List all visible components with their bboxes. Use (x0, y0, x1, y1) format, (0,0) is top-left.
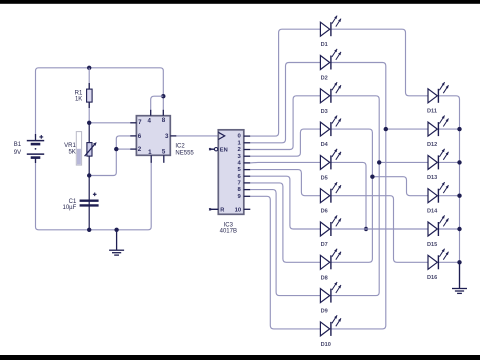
wire C1 vertical (88, 176, 90, 230)
svg-text:R: R (220, 208, 224, 214)
wire 555 pin6 to pin2 tie (89, 136, 130, 176)
IC3 output pin stubs and numbers (244, 136, 251, 209)
node rail junction row 5 (457, 160, 461, 164)
node D12 branch junction (384, 127, 388, 131)
IC2 pin stubs (130, 110, 176, 163)
svg-text:IC2: IC2 (175, 144, 185, 150)
node rail junction row 7 (457, 227, 461, 231)
wire D14 anode branch (372, 177, 428, 196)
ground symbol left (109, 230, 124, 255)
svg-text:2: 2 (138, 146, 142, 153)
svg-text:3: 3 (165, 133, 169, 140)
svg-text:D11: D11 (427, 109, 437, 115)
svg-text:1: 1 (148, 149, 152, 156)
node R1/VR1/pin7 junction (87, 121, 91, 125)
svg-text:6: 6 (138, 133, 142, 140)
svg-text:D2: D2 (321, 76, 328, 82)
wire D4/D8/D14 rail (331, 129, 373, 262)
svg-text:D1: D1 (321, 42, 328, 48)
svg-text:10: 10 (235, 207, 242, 213)
wire R1 bottom to 555 pin 7 (89, 122, 130, 124)
node rail junction row 8 (457, 260, 461, 264)
wire V+ top rail from battery to 555 pin8 (36, 68, 164, 137)
LED D8 (320, 249, 341, 282)
svg-text:D8: D8 (321, 275, 328, 281)
LED D3 (320, 82, 341, 115)
wire D11 cathode to right rail (438, 96, 459, 289)
IC3 R pin (209, 208, 218, 210)
svg-text:D10: D10 (321, 342, 331, 348)
LED D12 (427, 116, 449, 148)
LED D5 (320, 149, 341, 182)
wire D3/D9/D13 rail (331, 96, 379, 296)
LED D7 (320, 215, 341, 248)
wire 4017 output 4 to D5 (250, 161, 320, 164)
node rail junction row 6 (457, 194, 461, 198)
svg-text:1K: 1K (75, 97, 82, 103)
wire 4017 output 7 to D8 (250, 183, 320, 262)
svg-text:D12: D12 (427, 142, 437, 148)
wire D12 cathode to rail (438, 128, 459, 130)
LED D4 (320, 116, 341, 149)
IC3 clock chevron (218, 132, 224, 139)
wire D6 cathode to D16 anode (331, 196, 428, 263)
svg-text:D7: D7 (321, 242, 328, 248)
LED D6 (320, 182, 341, 215)
node ground tap (114, 228, 118, 232)
LED D11 (427, 82, 449, 114)
wire branch to 555 pin 4 (151, 96, 164, 110)
counter U IC3 4017B body (218, 130, 244, 215)
wire D16 cathode to rail (438, 261, 459, 263)
wire 555 pin3 to 4017 clock (176, 135, 218, 137)
LED D16 (427, 249, 449, 281)
wire 4017 output 9 to D10 (250, 196, 320, 329)
wire D7 cathode to D15 anode (331, 228, 428, 230)
wire D14 cathode to rail (438, 195, 459, 197)
wire D5 cathode to D7-D15 net (331, 162, 366, 229)
wire R1 top branch (88, 68, 90, 123)
node VR1 bottom / C1 top junction (87, 173, 91, 177)
LED D10 (320, 315, 341, 348)
battery B1 9V (27, 134, 44, 163)
svg-text:5: 5 (162, 149, 166, 156)
svg-text:D15: D15 (427, 242, 437, 248)
LED D14 (427, 182, 449, 214)
wire 4017 output 3 to D4 (250, 129, 320, 156)
svg-text:D14: D14 (427, 209, 438, 215)
svg-text:9V: 9V (14, 150, 21, 156)
wire D12 anode branch (386, 128, 428, 130)
wire ground bottom rail (36, 159, 152, 230)
svg-text:D13: D13 (427, 175, 437, 181)
resistor R1 1K (87, 83, 93, 108)
ground symbol right (452, 262, 467, 293)
wire D2/D10/D12 rail (331, 63, 386, 329)
node D5/D7/D15 junction (364, 227, 368, 231)
LED D15 (427, 215, 449, 247)
wire D15 cathode to rail (438, 228, 459, 230)
svg-text:D9: D9 (321, 309, 328, 315)
wire D13 anode branch (379, 161, 428, 163)
svg-text:C1: C1 (69, 199, 77, 205)
node D13 branch junction (377, 160, 381, 164)
svg-text:EN: EN (220, 148, 228, 154)
wire 4017 output 1 to D2 (250, 63, 320, 143)
wire 4017 output 5 to D6 (250, 170, 320, 196)
svg-text:4: 4 (147, 118, 151, 125)
IC3 EN pin with bubble (209, 148, 218, 151)
svg-text:B1: B1 (14, 142, 22, 148)
svg-text:D5: D5 (321, 175, 328, 181)
node C1 bottom on ground rail (87, 228, 91, 232)
wire 4017 output 2 to D3 (250, 96, 320, 150)
svg-text:10µF: 10µF (63, 205, 77, 211)
wire D13 cathode to rail (438, 161, 459, 163)
LED D2 (320, 49, 341, 82)
wire 4017 output 6 to D7 (250, 176, 320, 229)
svg-text:4017B: 4017B (220, 229, 237, 235)
node D14 branch junction (370, 175, 374, 179)
wire 4017 output 0 to D1 (250, 29, 320, 136)
svg-text:7: 7 (138, 119, 142, 126)
svg-text:8: 8 (162, 117, 166, 124)
wire 555 pin2 stub link (116, 148, 130, 150)
svg-text:D6: D6 (321, 209, 328, 215)
svg-text:D3: D3 (321, 109, 328, 115)
node V+ junction to R1 (87, 66, 91, 70)
svg-text:5K: 5K (68, 149, 75, 155)
node 555 pins 4-8 tie (161, 94, 165, 98)
node pins 2-6 junction (114, 147, 118, 151)
LED D1 (320, 16, 341, 49)
wire VR1 vertical (88, 123, 90, 176)
LED D13 (427, 149, 449, 181)
svg-text:NE555: NE555 (175, 151, 194, 157)
node rail junction row 4 (457, 127, 461, 131)
svg-text:VR1: VR1 (64, 143, 76, 149)
svg-text:D16: D16 (427, 275, 437, 281)
svg-text:D4: D4 (321, 142, 329, 148)
potentiometer VR1 5K (76, 132, 96, 166)
LED D9 (320, 282, 341, 315)
op-amp timer U IC2 NE555 body (136, 116, 170, 156)
svg-text:R1: R1 (75, 90, 83, 96)
wire 4017 output 8 to D9 (250, 190, 320, 296)
bottom letterbox bar (0, 355, 480, 360)
top letterbox bar (0, 0, 480, 4)
wire D1 cathode to D11 anode (331, 29, 428, 96)
capacitor C1 10uF (80, 193, 99, 206)
